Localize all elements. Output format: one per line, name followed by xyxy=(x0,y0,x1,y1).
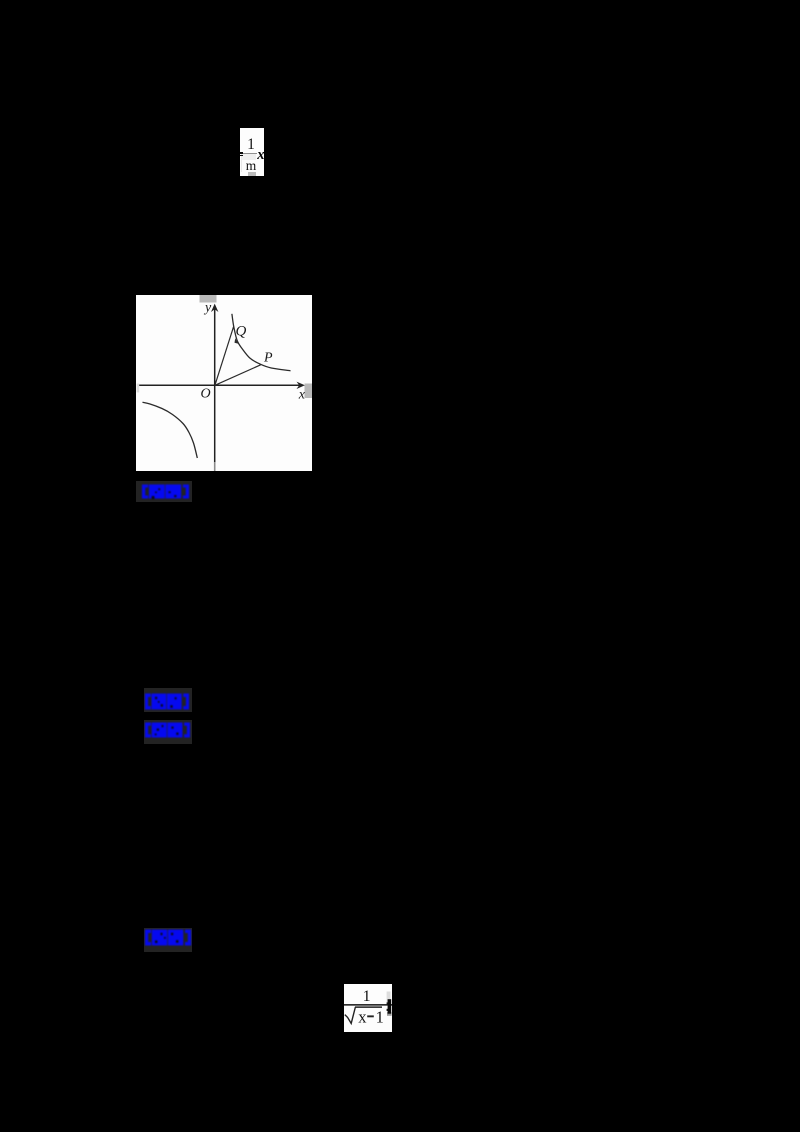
small arrowhead on curve between Q and P xyxy=(235,338,239,344)
ray O to Q xyxy=(215,327,234,386)
ray O to P xyxy=(215,365,261,386)
blue tag 1 text blob xyxy=(142,484,189,499)
svg-text:x: x xyxy=(298,388,306,403)
partial equals sign at left edge xyxy=(240,152,243,154)
blue tag 4 background xyxy=(144,928,192,952)
radical sign xyxy=(345,1007,356,1023)
blue tag 2 text blob xyxy=(145,693,189,710)
denominator m xyxy=(241,160,261,171)
numerator 1 xyxy=(240,137,262,152)
svg-text:x: x xyxy=(358,1007,367,1026)
equation image: fraction 1/m with partial "=" and "x" xyxy=(240,128,264,176)
light gray streak at left edge below axis xyxy=(137,384,140,393)
gray patch right lower xyxy=(387,1012,392,1016)
y-axis xyxy=(214,307,216,462)
radical overline xyxy=(355,1006,382,1008)
y-axis gray lower tail xyxy=(214,462,216,471)
gray patch right top xyxy=(387,992,391,1003)
light gray artifact below bar xyxy=(241,154,257,160)
equation image: fraction 1/sqrt(x-1) xyxy=(344,984,392,1032)
light gray left column artifact xyxy=(241,154,243,172)
third-quadrant hyperbola branch xyxy=(143,402,198,458)
graph image: hyperbola y=k/x with rays OP, OQ xyxy=(136,295,312,471)
svg-text:P: P xyxy=(263,351,273,366)
svg-text:1: 1 xyxy=(376,1007,384,1026)
blue tag 4 text blob xyxy=(145,929,191,946)
partial black glyph at right edge xyxy=(388,999,392,1014)
x-axis xyxy=(139,384,301,386)
gray patch top xyxy=(200,295,217,303)
x-axis arrowhead xyxy=(297,382,305,389)
first-quadrant hyperbola branch xyxy=(232,314,291,371)
blue tag 3 background xyxy=(144,720,192,744)
fraction bar (gray) xyxy=(243,153,257,155)
blue tag 3 text blob xyxy=(145,722,190,738)
svg-text:y: y xyxy=(203,301,212,316)
gray patch right near x label xyxy=(305,384,313,399)
main fraction bar xyxy=(344,1004,392,1006)
svg-text:1: 1 xyxy=(363,988,371,1005)
svg-text:O: O xyxy=(201,387,211,402)
blue tag 2 background xyxy=(144,688,192,712)
y-axis arrowhead xyxy=(211,304,218,312)
blue tag 1 background xyxy=(136,481,192,502)
svg-text:Q: Q xyxy=(236,324,247,340)
gray patch bottom xyxy=(248,172,256,177)
bold x overlapping right side xyxy=(257,147,266,159)
